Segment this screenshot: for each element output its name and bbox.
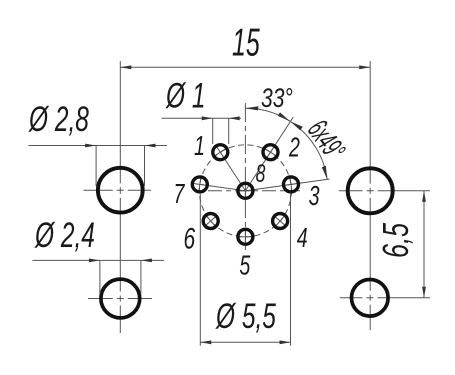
dimension Ø2,4 line [33, 259, 165, 261]
svg-text:33°: 33° [261, 84, 293, 114]
pin label 1 [194, 131, 205, 162]
svg-text:4: 4 [297, 223, 308, 254]
pin label 4 [297, 223, 308, 254]
pin label 8 [256, 159, 266, 188]
centerline pattern horizontal [208, 190, 300, 192]
label 15 [232, 20, 260, 64]
hole right top [348, 168, 393, 213]
centerline pattern vertical [244, 103, 246, 250]
svg-text:Ø 1: Ø 1 [165, 77, 205, 115]
hole left top Ø2,8 [98, 168, 143, 213]
dimension Ø5,5 extension right [290, 194, 292, 346]
label 6,5 [376, 222, 417, 258]
dimension 6,5 arrow top [422, 191, 426, 202]
pin 5 [238, 229, 253, 244]
centerline right top hole horizontal [339, 190, 430, 192]
dimension Ø5,5 extension left [199, 194, 201, 346]
label Ø2,8 [28, 101, 89, 139]
hole left bottom Ø2,4 [101, 279, 140, 318]
pin 7 [191, 176, 208, 193]
angular dimension 6x49 arrow end [322, 166, 327, 180]
dimension Ø1 arrow right [229, 116, 240, 120]
svg-text:Ø 2,8: Ø 2,8 [28, 101, 89, 139]
centerline left top hole horizontal [84, 189, 152, 191]
pin label 6 [184, 223, 196, 255]
radial line to pin 3 extended [245, 179, 329, 191]
pin 2 [260, 142, 281, 163]
label 33deg [261, 84, 293, 114]
dimension Ø2,4 extension right [140, 260, 142, 294]
angular dimension 6x49 arc [290, 122, 327, 180]
dimension Ø2,8 extension right [144, 146, 146, 187]
dimension 15 line [120, 66, 370, 68]
dimension Ø2,4 arrow right [141, 259, 152, 263]
pin 3 [283, 176, 300, 193]
dimension Ø5,5 line [200, 341, 290, 343]
pin 1 [210, 142, 231, 163]
label Ø1 [165, 77, 205, 115]
dimension Ø1 arrow left [202, 116, 213, 120]
angular dimension 6x49 arrow start [290, 122, 302, 131]
dimension Ø2,8 arrow right [145, 144, 156, 148]
dimension Ø2,8 extension left [95, 146, 97, 187]
svg-text:6,5: 6,5 [376, 222, 417, 258]
svg-text:7: 7 [174, 178, 186, 209]
svg-text:15: 15 [232, 20, 260, 64]
angular dimension 33 arrow end [278, 112, 291, 121]
centerline right holes vertical [369, 61, 371, 330]
label 6x49deg [300, 114, 351, 166]
dimension Ø1 extension left [212, 118, 214, 144]
dimension Ø2,4 arrow left [89, 259, 100, 263]
dimension Ø2,8 arrow left [85, 144, 96, 148]
dimension Ø5,5 arrow right [280, 340, 291, 344]
pin label 2 [288, 132, 300, 163]
bolt circle dashed [199, 145, 291, 237]
dimension 6,5 arrow bottom [422, 287, 426, 298]
pin label 3 [309, 181, 320, 212]
svg-text:3: 3 [309, 181, 320, 212]
label Ø5,5 [215, 298, 276, 336]
pin label 7 [174, 178, 186, 209]
label Ø2,4 [34, 217, 95, 255]
dimension 6,5 line [423, 191, 425, 298]
angular dimension 33 arrow top [245, 106, 258, 110]
centerline right bottom hole horizontal [340, 297, 430, 299]
dimension Ø1 line [162, 117, 242, 119]
svg-text:Ø 5,5: Ø 5,5 [215, 298, 276, 336]
dimension Ø2,8 line [29, 145, 168, 147]
pin 6 [200, 210, 221, 231]
hole right bottom [352, 280, 389, 317]
radial line to pin 7 [200, 184, 246, 190]
svg-text:5: 5 [239, 250, 250, 281]
svg-text:2: 2 [288, 132, 300, 163]
dimension Ø5,5 arrow left [200, 340, 211, 344]
pin 8 center [238, 183, 253, 198]
svg-text:6x49°: 6x49° [300, 114, 351, 166]
radial line to pin 1 [220, 152, 245, 191]
dimension 15 arrow left [120, 65, 131, 69]
centerline left bottom hole horizontal [88, 298, 152, 300]
svg-text:1: 1 [194, 131, 205, 162]
centerline left holes vertical [119, 61, 121, 333]
svg-text:8: 8 [256, 159, 266, 188]
dimension 15 arrow right [359, 65, 370, 69]
dimension Ø2,4 extension left [99, 260, 101, 294]
radial line to pin 2 extended [245, 117, 293, 191]
svg-text:Ø 2,4: Ø 2,4 [34, 217, 95, 255]
pin 4 [270, 210, 291, 231]
svg-text:6: 6 [184, 223, 196, 255]
pin label 5 [239, 250, 250, 281]
angular dimension 33 arc [245, 108, 290, 121]
dimension Ø1 extension right [228, 118, 230, 144]
